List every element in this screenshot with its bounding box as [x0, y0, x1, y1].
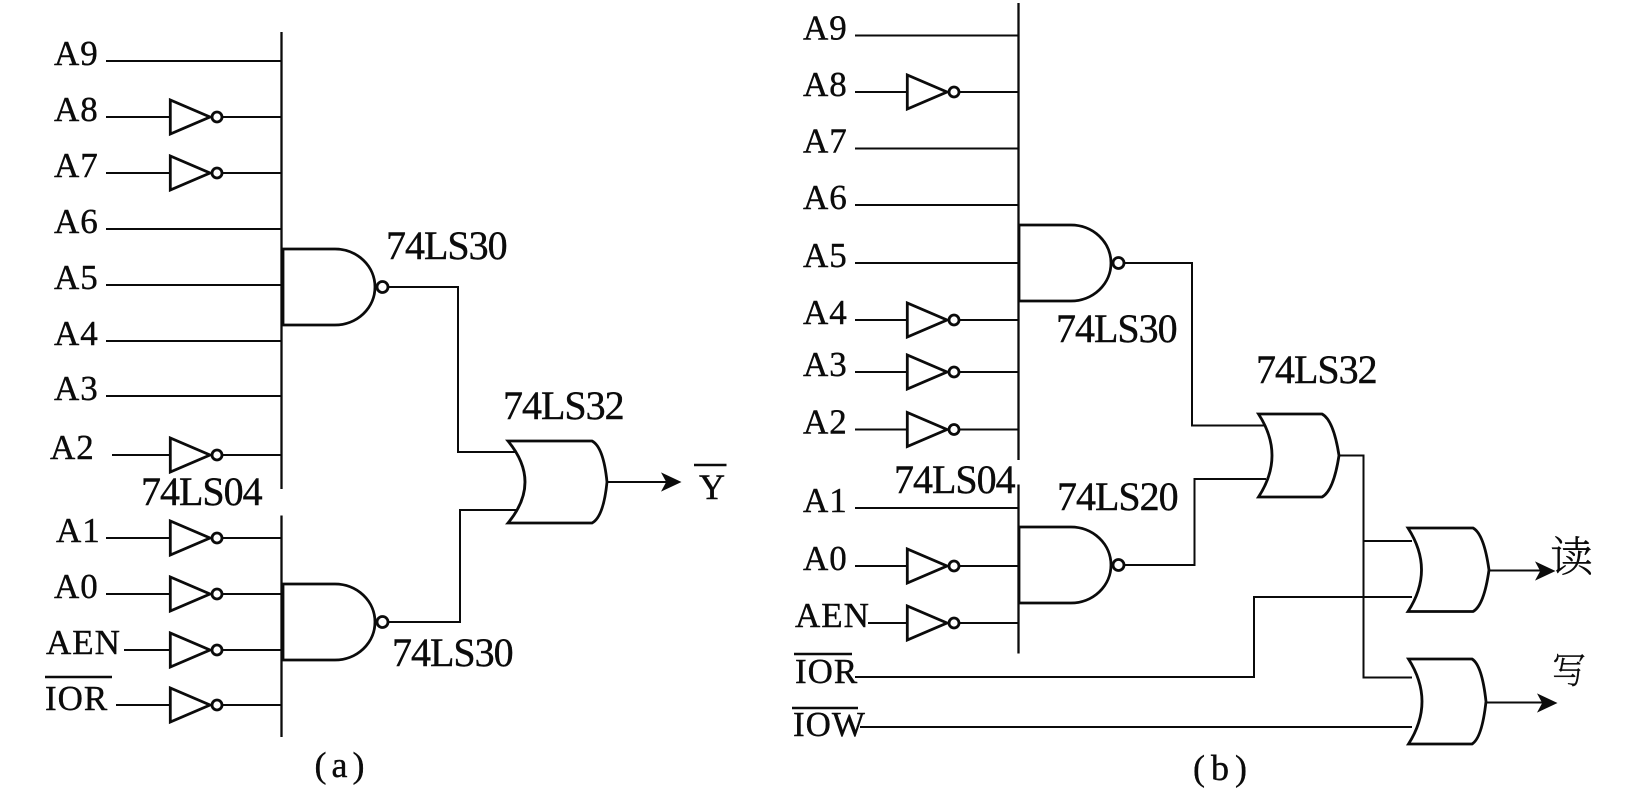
svg-text:A6: A6	[803, 178, 848, 217]
svg-text:Y: Y	[699, 467, 726, 507]
svg-text:74LS30: 74LS30	[392, 630, 513, 675]
svg-text:A2: A2	[803, 403, 848, 442]
svg-text:A0: A0	[54, 567, 99, 606]
svg-text:IOR: IOR	[795, 652, 858, 691]
svg-text:A7: A7	[803, 122, 848, 161]
svg-text:74LS32: 74LS32	[1256, 347, 1377, 392]
svg-text:A8: A8	[54, 90, 99, 129]
svg-text:IOW: IOW	[793, 705, 866, 744]
svg-text:A5: A5	[803, 236, 848, 275]
svg-text:A7: A7	[54, 146, 99, 185]
svg-text:74LS20: 74LS20	[1057, 474, 1178, 519]
svg-text:(a): (a)	[315, 745, 370, 785]
svg-text:A9: A9	[54, 34, 99, 73]
svg-text:A1: A1	[56, 511, 101, 550]
svg-text:AEN: AEN	[795, 596, 870, 635]
svg-text:A4: A4	[803, 293, 848, 332]
svg-text:IOR: IOR	[45, 679, 108, 718]
svg-text:A0: A0	[803, 539, 848, 578]
svg-text:(b): (b)	[1193, 748, 1253, 788]
svg-text:A1: A1	[803, 481, 848, 520]
svg-text:A4: A4	[54, 314, 99, 353]
svg-text:74LS30: 74LS30	[386, 223, 507, 268]
svg-text:A2: A2	[50, 428, 95, 467]
svg-text:74LS32: 74LS32	[503, 383, 624, 428]
svg-text:A8: A8	[803, 65, 848, 104]
svg-text:A3: A3	[54, 369, 99, 408]
svg-text:A5: A5	[54, 258, 99, 297]
svg-text:74LS30: 74LS30	[1056, 306, 1177, 351]
svg-text:A9: A9	[803, 9, 848, 48]
svg-text:A6: A6	[54, 202, 99, 241]
svg-text:A3: A3	[803, 345, 848, 384]
svg-text:74LS04: 74LS04	[141, 469, 263, 514]
svg-text:AEN: AEN	[46, 623, 121, 662]
svg-text:74LS04: 74LS04	[894, 457, 1016, 502]
